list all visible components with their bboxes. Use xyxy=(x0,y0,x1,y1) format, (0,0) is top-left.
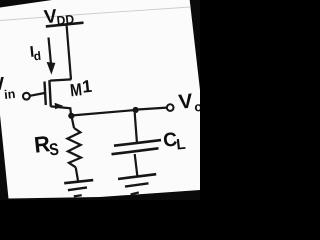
label Vin xyxy=(0,72,16,104)
wire: capacitor bottom lead xyxy=(135,154,138,177)
wire: gate lead from Vin terminal xyxy=(30,93,45,96)
svg-text:o: o xyxy=(194,99,200,115)
wire: drain vertical from rail to M1 drain xyxy=(67,25,71,79)
node: output node junction dot xyxy=(133,107,139,113)
ground symbol (capacitor) bar1 xyxy=(118,174,156,179)
wire: capacitor top lead xyxy=(135,113,137,144)
ground symbol (capacitor) bar2 xyxy=(125,183,149,186)
resistor RS zigzag xyxy=(67,128,81,167)
page xyxy=(0,0,200,199)
label RS xyxy=(33,130,60,161)
page top edge faint line xyxy=(0,7,190,21)
photo background xyxy=(0,0,200,200)
svg-text:in: in xyxy=(4,87,17,102)
wire: M1 drain horizontal xyxy=(50,79,71,80)
label CL xyxy=(162,128,186,155)
node: source node junction dot xyxy=(68,113,74,119)
wire: output wire from source node to output node xyxy=(71,110,135,116)
label Id xyxy=(29,43,42,64)
transistor M1 gate bar xyxy=(45,82,46,106)
svg-text:L: L xyxy=(175,136,186,154)
input terminal circle Vin xyxy=(23,93,30,100)
output terminal circle Vo xyxy=(167,104,174,111)
label VDD xyxy=(43,4,75,29)
wire: to Vo terminal xyxy=(136,108,167,110)
VDD supply rail xyxy=(46,23,84,27)
capacitor CL top plate xyxy=(114,140,161,146)
svg-text:S: S xyxy=(48,140,59,160)
label Vo xyxy=(178,89,204,117)
transistor M1 channel bar xyxy=(49,80,50,106)
wire: resistor top lead xyxy=(72,116,75,128)
current arrow Id head xyxy=(47,62,56,75)
capacitor CL bottom plate xyxy=(112,148,159,154)
ground symbol (resistor) bar3 xyxy=(74,195,82,196)
ground symbol (capacitor) bar3 xyxy=(131,192,139,194)
svg-text:V: V xyxy=(178,89,195,113)
wire: resistor bottom lead xyxy=(76,167,79,182)
current arrow Id line xyxy=(49,38,51,64)
ground symbol (resistor) bar2 xyxy=(68,187,87,190)
wire: M1 source lead xyxy=(51,106,72,115)
label M1 xyxy=(69,76,94,101)
ground symbol (resistor) bar1 xyxy=(64,180,93,183)
svg-text:d: d xyxy=(33,49,42,64)
transistor M1 source arrow xyxy=(55,103,64,110)
svg-text:DD: DD xyxy=(56,12,75,28)
